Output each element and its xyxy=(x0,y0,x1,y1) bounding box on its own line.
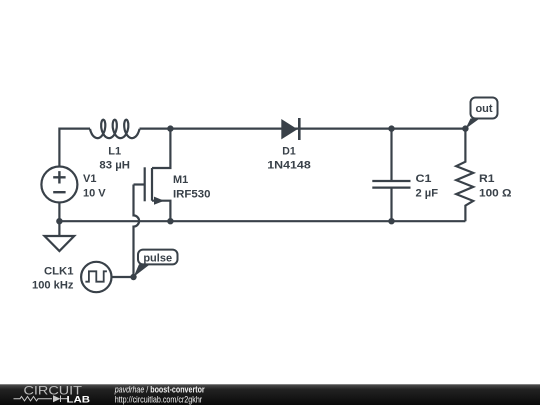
svg-text:LAB: LAB xyxy=(67,395,91,405)
M1 gate lead xyxy=(134,183,145,185)
logo wire with resistor and diode xyxy=(14,396,69,403)
svg-text:C1: C1 xyxy=(416,173,432,185)
pulse label box xyxy=(138,250,178,265)
svg-text:10 V: 10 V xyxy=(83,187,106,199)
ground xyxy=(45,236,75,251)
V1 plus sign xyxy=(53,171,65,183)
node dot out xyxy=(462,125,468,131)
node dot C1 top xyxy=(388,125,394,131)
M1 source lead xyxy=(152,201,170,222)
out label pointer xyxy=(465,118,479,128)
node dot M1 source xyxy=(167,218,173,224)
svg-text:http://circuitlab.com/cr2gkhr: http://circuitlab.com/cr2gkhr xyxy=(115,394,203,405)
out label box xyxy=(471,98,498,119)
M1 source arrow xyxy=(154,197,164,205)
wire V1 bottom to ground xyxy=(58,203,60,236)
wire CLK1 to gate wire xyxy=(112,276,134,278)
inductor L1 xyxy=(90,120,140,138)
svg-text:100 kHz: 100 kHz xyxy=(32,280,74,292)
V1 minus sign xyxy=(53,191,65,193)
svg-text:IRF530: IRF530 xyxy=(173,188,211,200)
transistor M1 gate bar xyxy=(144,167,146,201)
svg-text:83 µH: 83 µH xyxy=(99,160,130,172)
svg-text:M1: M1 xyxy=(173,174,188,186)
svg-text:pulse: pulse xyxy=(143,252,172,264)
capacitor C1 top lead xyxy=(390,129,392,181)
svg-text:CLK1: CLK1 xyxy=(44,265,74,277)
svg-text:2 µF: 2 µF xyxy=(416,187,439,199)
diode D1 cathode bar xyxy=(298,118,301,140)
logo diode triangle xyxy=(53,395,61,402)
transistor M1 channel bar xyxy=(151,168,153,201)
node dot CLK1 xyxy=(130,274,136,280)
svg-text:L1: L1 xyxy=(108,145,121,157)
svg-text:out: out xyxy=(475,103,492,115)
CLK1 square wave glyph xyxy=(85,271,107,281)
clock source CLK1 circle xyxy=(81,262,111,292)
node dot V1 ground xyxy=(56,218,62,224)
node dot C1 bottom xyxy=(388,218,394,224)
diode D1 triangle xyxy=(281,119,297,139)
footer bar xyxy=(0,384,540,405)
wire bottom rail xyxy=(59,220,465,222)
voltage source V1 circle xyxy=(41,167,77,203)
resistor R1 with zigzag xyxy=(456,129,473,222)
node dot M1 drain xyxy=(167,125,173,131)
wire top rail from inductor to out node xyxy=(140,128,466,130)
wire gate down with hop over bottom rail xyxy=(134,185,140,278)
wire top-left from V1 up and right to inductor xyxy=(59,129,90,167)
C1 bottom lead xyxy=(390,188,392,222)
C1 bottom plate xyxy=(372,187,410,189)
svg-text:1N4148: 1N4148 xyxy=(267,160,311,172)
M1 drain lead xyxy=(152,129,170,168)
C1 top plate xyxy=(372,180,410,182)
svg-text:100 Ω: 100 Ω xyxy=(479,187,512,199)
svg-text:R1: R1 xyxy=(479,173,495,185)
svg-text:V1: V1 xyxy=(83,173,96,185)
svg-text:D1: D1 xyxy=(282,145,295,157)
pulse label pointer xyxy=(134,264,151,277)
